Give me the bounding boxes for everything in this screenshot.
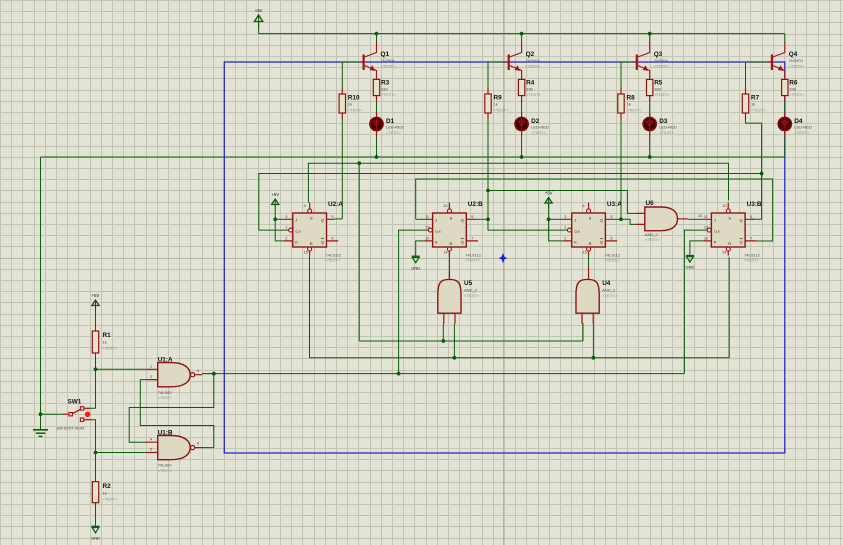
svg-text:14: 14 [698,214,702,218]
svg-text:R1: R1 [103,332,112,339]
svg-text:1: 1 [564,226,566,230]
svg-text:U1:B: U1:B [158,429,173,436]
svg-text:<TEXT>: <TEXT> [465,258,481,263]
svg-text:R7: R7 [751,95,760,102]
wire: U2:B Q to R9 column [475,218,488,220]
svg-text:3: 3 [197,369,199,373]
wire: R9 bottom to U2:B Q node [487,120,489,191]
wire: R3 to D1 [376,96,378,102]
svg-text:GND: GND [91,536,100,541]
svg-text:<TEXT>: <TEXT> [531,130,547,135]
svg-text:13: 13 [425,226,429,230]
junction: L_C / U2:B CLK drop [397,372,401,376]
svg-text:SW1: SW1 [68,399,82,406]
svg-text:6: 6 [332,236,334,240]
wire: R9 top to Q2 base line [487,88,489,95]
pin stubs: U6 inputs [635,213,645,224]
wire: U4 input B down to L_B [592,324,594,358]
svg-text:<TEXT>: <TEXT> [751,108,767,113]
svg-text:K: K [714,239,717,244]
pin stub: U6 output [678,218,688,220]
wire: rail to Q1 collector [376,34,378,43]
svg-text:4: 4 [304,204,306,208]
svg-text:9: 9 [471,215,473,219]
pin stubs: U4 inputs [582,313,593,324]
wire: B2 drop to L_A [358,163,360,341]
transistor Q1 (2N3904) [363,42,397,78]
wire B4: U3:B Q-bar to U2:B J bus (y=179) [416,179,773,241]
transistor Q2 (2N3904) [508,42,542,78]
svg-text:<TEXT>: <TEXT> [494,108,510,113]
resistor R7 (1k) [742,94,766,113]
wire: L_A right end up to U4 input A [582,323,584,341]
svg-text:CLK: CLK [714,229,720,233]
resistor R4 (330) [518,79,541,97]
wire: R5 to D3 [649,96,651,102]
wire: Q2 base from R9 [488,61,505,63]
power terminal +5V (U3:A J/K) [545,191,553,209]
svg-text:1k: 1k [103,340,107,345]
svg-text:7: 7 [471,236,473,240]
wire: Q3 emitter to R5 [649,78,651,80]
wire: R2 node to U1:B input 2 [96,452,147,454]
junction: rail / Q2 collector [520,32,524,36]
svg-text:AND_2: AND_2 [602,288,616,293]
junction: W1 drop / SW1 pole [39,412,43,416]
svg-text:5: 5 [150,448,152,452]
svg-text:R2: R2 [103,483,112,490]
junction: L_C / latch feedback [212,372,216,376]
wire: D2 cathode to W1 bus [521,131,523,137]
pin stub: R8 bottom [620,113,622,120]
transistor Q4 (2N3904) [771,42,805,78]
svg-text:2: 2 [564,236,566,240]
svg-text:J: J [714,217,716,222]
svg-text:5: 5 [332,215,334,219]
wire: U2:B K to ground [416,241,425,256]
wire: Q1 emitter to R3 [376,78,378,80]
LED D3 (LED-RED) [643,117,677,134]
svg-text:2N3904: 2N3904 [381,58,396,63]
svg-text:<TEXT>: <TEXT> [348,108,364,113]
svg-text:<TEXT>: <TEXT> [654,92,670,97]
JK flip-flop U2:A (74LS112) [285,201,344,263]
pin stub: Q3 base [633,61,637,63]
pin stubs: U5 inputs [444,313,455,324]
svg-text:1k: 1k [103,491,107,496]
ground symbol (below SW1) [33,430,48,437]
transistor Q3 (2N3904) [636,42,670,78]
svg-text:<TEXT>: <TEXT> [464,293,480,298]
svg-text:Q: Q [461,217,464,222]
junction: L_A / U5 input A [441,339,445,343]
svg-text:R4: R4 [526,80,535,87]
ground terminal (U3:B K) [685,256,694,270]
svg-text:1k: 1k [751,102,755,107]
wire: junction down to R2 [95,453,97,482]
svg-text:K: K [574,239,577,244]
LED D2 (LED-RED) [515,117,549,134]
wire: junction down to SW1 upper throw [91,369,96,408]
junction: L_B / U5 input B [453,356,457,360]
junction: +5V / U3:A J [547,217,551,221]
svg-text:+5V: +5V [92,293,100,298]
svg-text:15: 15 [583,251,587,255]
wire: U1:A output node [202,373,214,375]
junction: rail / Q3 collector [648,32,652,36]
power terminal +5V (U2:A J/K) [271,192,279,210]
svg-text:S: S [728,216,731,221]
wire: U2:B Q down to U3:A CLK [488,219,567,230]
svg-text:K: K [295,239,298,244]
wire B2: set bus U2:A S to U3:B S (y=163.2) [308,163,728,203]
svg-text:R8: R8 [627,95,636,102]
pin stub: U1:A output [195,374,202,376]
wire: SW1 pole to ground rail [41,413,64,415]
resistor R1 (1k) [92,331,118,353]
junction: W1 / D3 [648,155,652,159]
sheet origin marker (blue diamond) [499,253,508,263]
svg-text:R: R [450,241,453,246]
wire: U3:B Q column (x=761.6) [750,174,761,220]
svg-text:<TEXT>: <TEXT> [744,258,760,263]
svg-text:R3: R3 [381,80,390,87]
svg-text:<TEXT>: <TEXT> [645,237,661,242]
wire: R7 bottom jog to U3:B Q column [746,120,762,174]
wire: U2:B R to U5 output [448,255,450,268]
svg-text:GND: GND [685,265,694,270]
wire: U4 input A down to L_A [582,324,584,341]
svg-text:12: 12 [425,236,429,240]
svg-text:<TEXT>: <TEXT> [526,92,542,97]
wire: D3 cathode to W1 bus [649,131,651,137]
wire W1: LED cathode bus (y=157) [41,156,785,158]
svg-text:<TEXT>: <TEXT> [158,468,174,473]
wire: rail to Q4 collector [784,34,786,43]
pin stub: Q2 base [505,61,509,63]
svg-text:1k: 1k [348,102,352,107]
wire: U3:A Q to U6 input B [614,218,621,220]
wire: Q4 base from R7 [746,61,768,63]
wire: U2:B CLK drop [399,230,429,374]
svg-text:1: 1 [150,365,152,369]
junction: U3:A Q / R8 [619,217,623,221]
pin stub: Q1 base [360,61,364,63]
svg-text:SW-SPDT-MOM: SW-SPDT-MOM [57,426,85,430]
svg-text:R9: R9 [494,95,503,102]
JK flip-flop U2:B (74LS112) [424,201,483,263]
svg-text:6: 6 [197,442,199,446]
svg-text:CLK: CLK [574,229,580,233]
junction: B2 / drop to L_A [357,161,361,165]
junction: W1 / D1 [375,155,379,159]
wire: U2:A Q up to R10 [335,218,343,220]
svg-text:K: K [435,239,438,244]
pin stub: U1:B output [195,447,202,449]
svg-text:AND_2: AND_2 [464,288,478,293]
svg-text:Q: Q [600,239,603,244]
svg-text:<TEXT>: <TEXT> [103,497,119,502]
svg-text:<TEXT>: <TEXT> [158,395,174,400]
svg-text:<TEXT>: <TEXT> [381,64,397,69]
resistor R3 (330) [373,79,396,97]
svg-text:2: 2 [150,375,152,379]
junction: +5V / U2:A J [273,217,277,221]
power terminal +5V (top rail) [254,8,262,28]
wire: Q4 emitter to R6 [784,78,786,80]
svg-text:U2:B: U2:B [468,201,483,208]
svg-text:<TEXT>: <TEXT> [526,64,542,69]
wire: U2:B J from B4 [416,218,425,220]
resistor R9 (1k) [485,94,509,113]
wire: R1 node to U1:A input 1 [96,368,147,370]
wire: +5V down to top rail corner [258,24,260,34]
svg-text:<TEXT>: <TEXT> [789,92,805,97]
wire: R8 bottom to U3:A Q node [620,120,622,220]
wire: U3:B K to ground [690,241,703,255]
wire: U3:A J [549,218,564,220]
svg-text:4: 4 [583,204,585,208]
svg-text:<TEXT>: <TEXT> [604,258,620,263]
svg-text:R: R [310,241,313,246]
svg-text:S: S [589,216,592,221]
wire: U2:A CLK from B3 [259,229,289,231]
wire: R8 top to Q3 base line [620,88,622,95]
svg-text:14: 14 [722,251,726,255]
wire: SW1 lower throw down to R2 junction [91,420,96,453]
svg-text:Q: Q [739,217,742,222]
wire: down to ground symbol [40,414,42,429]
svg-text:330: 330 [526,87,533,92]
ground terminal (U2:B K) [411,256,420,270]
AND gate U6 (AND_2, pointing right) [645,200,678,242]
svg-text:Q: Q [321,217,324,222]
pin stub: R9 bottom [487,113,489,120]
wire: U3:B CLK drop [684,230,707,374]
AND gate U4 (AND_2, pointing up) [576,279,618,313]
pin stubs: U1:A inputs [146,369,158,379]
LED D1 (LED-RED) [370,117,404,134]
svg-text:J: J [574,217,576,222]
pin stub: Q4 base [768,61,772,63]
NAND gate U1:B (74LS00) [158,429,195,473]
svg-text:+5V: +5V [271,192,279,197]
svg-text:J: J [295,217,297,222]
wire: D4 cathode to W1 bus [784,131,786,137]
wire: rail to Q2 collector [521,34,523,43]
svg-text:U5: U5 [464,280,473,287]
junction: R1 / SW1 / U1:A in1 [94,367,98,371]
junction: R2 / SW1 / U1:B in2 [94,451,98,455]
wire: Q3 base from R8 [621,61,633,63]
NAND gate U1:A (74LS00) [158,356,195,400]
svg-text:3: 3 [564,215,566,219]
svg-text:<TEXT>: <TEXT> [654,64,670,69]
resistor R6 (330) [782,79,805,97]
junction: B3 / U3:B Q column [760,172,764,176]
wire: D1 cathode to W1 bus [376,131,378,137]
wire: R6 to D4 [784,96,786,102]
svg-text:R: R [589,241,592,246]
svg-text:GND: GND [411,265,420,270]
LED D4 (LED-RED) [778,117,812,134]
svg-text:<TEXT>: <TEXT> [627,108,643,113]
sheet origin vertical axis [503,0,505,545]
svg-text:R: R [728,241,731,246]
svg-text:4: 4 [150,437,152,441]
svg-text:11: 11 [425,215,429,219]
svg-text:U6: U6 [646,200,655,207]
svg-text:<TEXT>: <TEXT> [381,92,397,97]
svg-text:R10: R10 [348,95,360,102]
wire: R1 bottom to junction [95,353,97,369]
svg-text:Q: Q [600,217,603,222]
junction: W1 / D2 [520,155,524,159]
wire: U6 output to U3:B J [688,218,703,220]
pin stubs: U1:B inputs [146,442,158,452]
svg-text:10: 10 [722,204,726,208]
svg-text:CLK: CLK [435,229,441,233]
svg-text:10: 10 [443,204,447,208]
wire: +5V to U2:A J and K [275,209,284,241]
svg-text:330: 330 [654,87,661,92]
JK flip-flop U3:A (74LS112) [563,201,622,263]
svg-text:R6: R6 [789,80,798,87]
svg-text:<TEXT>: <TEXT> [602,293,618,298]
svg-text:<TEXT>: <TEXT> [794,130,810,135]
wire: +5V horizontal top rail [259,33,785,35]
svg-text:<TEXT>: <TEXT> [659,130,675,135]
pin stub: R10 bottom [341,113,343,120]
wire: U5 input A to L_A [442,324,444,341]
svg-text:1k: 1k [627,102,631,107]
wire: Q2 emitter to R4 [521,78,523,80]
svg-text:9: 9 [750,215,752,219]
svg-text:<TEXT>: <TEXT> [386,130,402,135]
svg-text:U2:A: U2:A [328,201,343,208]
svg-text:U3:A: U3:A [607,201,622,208]
svg-text:+5V: +5V [255,8,263,13]
resistor R10 (1k) [339,94,363,113]
junction: rail / Q1 collector [375,32,379,36]
svg-text:Q: Q [739,239,742,244]
wire: rail to Q3 collector [649,34,651,43]
svg-text:13: 13 [704,226,708,230]
svg-text:1k: 1k [494,102,498,107]
svg-text:2: 2 [285,236,287,240]
wire: +5V to R1 [95,310,97,331]
wire: Q1 base from R10 [342,61,359,63]
JK flip-flop U3:B (74LS112) [703,201,762,263]
svg-text:<TEXT>: <TEXT> [103,346,119,351]
svg-text:12: 12 [704,236,708,240]
svg-text:2N3904: 2N3904 [654,58,669,63]
svg-text:+5V: +5V [545,191,553,196]
wire B5: U2:B Q to U6 input A bus (y=190.5) [488,191,635,214]
wire: U3:A R to U4 output [588,255,590,268]
blue sub-sheet border rectangle [224,62,785,453]
wire: U1:B out up to F2 [140,380,214,448]
svg-text:2N3904: 2N3904 [789,58,804,63]
wire: +5V to U3:A J and K [549,208,564,241]
svg-text:S: S [450,216,453,221]
junction: U2:B Q / R9 / U3:A CLK [486,217,490,221]
svg-text:2N3904: 2N3904 [526,58,541,63]
power terminal +5V (R1 top) [92,293,100,311]
svg-text:U1:A: U1:A [158,356,173,363]
wire L_A: set logic bus (y=341) [359,340,583,342]
wire L_C: clock bus from U1:A output (y=373.6) [202,373,684,375]
svg-text:6: 6 [610,236,612,240]
pin stub: R7 bottom [745,113,747,120]
wire: R10 top to Q1 base line [341,88,343,95]
wire L_B: reset logic bus (y=357.8) [310,255,730,358]
switch SW1 (SW-SPDT-MOM) [57,399,91,431]
wire B3: U2:A CLK bus (y=173.5) [259,174,762,231]
svg-text:330: 330 [789,87,796,92]
svg-text:R5: R5 [654,80,663,87]
svg-text:7: 7 [750,236,752,240]
wire: R10 bottom to U2:A Q [341,120,343,219]
wire: U1:A out down to F1 [129,374,214,443]
wire: U2:A J [275,218,284,220]
junction: L_B / U4 input B [592,356,596,360]
svg-text:<TEXT>: <TEXT> [326,258,342,263]
svg-text:14: 14 [443,251,447,255]
svg-text:U3:B: U3:B [747,201,762,208]
svg-text:1: 1 [285,226,287,230]
junction: B5 / R9 column [486,189,490,193]
svg-text:15: 15 [304,251,308,255]
wire: R4 to D2 [521,96,523,102]
svg-text:CLK: CLK [295,229,301,233]
svg-text:U4: U4 [602,280,611,287]
svg-text:11: 11 [704,215,708,219]
resistor R8 (1k) [618,94,642,113]
AND gate U5 (AND_2, pointing up) [438,279,480,313]
sheet origin horizontal axis [0,258,843,260]
resistor R5 (330) [647,79,670,97]
svg-text:Q: Q [461,239,464,244]
wire: R7 top to Q4 base line [745,88,747,95]
svg-text:5: 5 [610,215,612,219]
wire: R2 bottom to ground [95,503,97,526]
svg-text:330: 330 [381,87,388,92]
svg-text:3: 3 [285,215,287,219]
wire: U5 input B to L_B [453,324,455,358]
svg-text:<TEXT>: <TEXT> [789,64,805,69]
ground terminal (below R2) [91,526,100,540]
svg-text:Q: Q [321,239,324,244]
svg-text:S: S [310,216,313,221]
svg-text:J: J [435,217,437,222]
resistor R2 (1k) [92,482,118,503]
wire W1 left drop to SW1 [40,157,42,414]
